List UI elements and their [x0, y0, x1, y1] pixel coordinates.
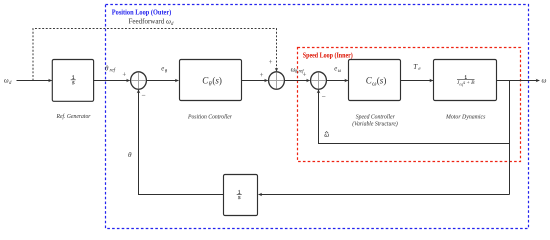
wire: input to Ref Generator — [17, 80, 52, 82]
svg-text:(s): (s) — [377, 75, 387, 85]
summing junction S3 (speed error) — [311, 72, 327, 89]
label: output w — [542, 76, 547, 84]
svg-text:+: + — [260, 72, 264, 79]
svg-text:+: + — [122, 71, 126, 78]
wire: S1 to Position Controller, label e_theta — [146, 80, 178, 82]
label: plus top at S2 — [269, 59, 273, 66]
label: e_w — [334, 65, 342, 73]
svg-text:ω: ω — [542, 76, 547, 84]
wire: position feedback to 1/s block — [259, 194, 510, 196]
block: Speed Controller C_w(s) — [349, 60, 401, 101]
wire: S3 to Speed Controller, label e_w — [326, 80, 348, 82]
wire: Speed Controller to Motor Dynamics, label T_e — [401, 80, 433, 82]
wire: S2 to S3, label w_ref — [284, 80, 309, 82]
label: theta_ref — [105, 64, 117, 73]
label: Ref. Generator — [56, 113, 91, 120]
input label wd — [4, 78, 12, 86]
label: plus at S3 — [303, 72, 307, 79]
svg-text:Position Controller: Position Controller — [187, 113, 232, 120]
wire: 1/s block to S1 bottom, label theta — [139, 90, 224, 195]
label: w-hat — [324, 131, 329, 139]
svg-text:−: − — [141, 91, 145, 100]
red dashed box: Speed Loop (Inner) — [298, 48, 521, 162]
block: feedback integrator 1/s — [224, 175, 258, 216]
blue dashed box: Position Loop (Outer) — [106, 5, 529, 229]
wire: Motor Dynamics to output w — [496, 80, 539, 82]
wire: output tap down — [509, 81, 511, 195]
label: T_e — [413, 63, 421, 72]
svg-text:θ: θ — [128, 151, 132, 159]
wire: Ref Generator to sum S1, label theta_ref — [94, 80, 130, 82]
svg-text:θ: θ — [209, 80, 212, 87]
svg-text:+: + — [269, 59, 273, 66]
label: w_ref — [291, 65, 305, 74]
label: plus left at S2 — [260, 72, 264, 79]
wire: Position Controller to sum S2 — [241, 80, 268, 82]
label: Position Loop (Outer) — [112, 8, 172, 16]
label: minus at S1 — [141, 91, 145, 100]
svg-text:(Variable Structure): (Variable Structure) — [352, 120, 398, 127]
svg-text:−: − — [322, 92, 326, 101]
svg-text:θ: θ — [105, 64, 109, 72]
block: Ref. Generator (1/s) — [52, 60, 93, 102]
label: Feedforward wd — [129, 17, 174, 27]
svg-text:+: + — [303, 72, 307, 79]
summing junction S2 (feedforward add) — [269, 72, 285, 89]
wire: speed feedback w-hat — [319, 90, 510, 144]
svg-text:Ref. Generator: Ref. Generator — [56, 113, 91, 120]
label: e_theta — [161, 66, 168, 75]
label: theta — [128, 151, 132, 159]
label: Speed Loop (Inner) — [303, 52, 354, 60]
label: Position Controller — [187, 113, 232, 120]
svg-text:Position Loop (Outer): Position Loop (Outer) — [112, 8, 172, 16]
block: Motor Dynamics 1/(Jeq s + B) — [434, 60, 497, 101]
label: plus at S1 — [122, 71, 126, 78]
label: Motor Dynamics — [445, 113, 486, 120]
svg-text:Speed Loop (Inner): Speed Loop (Inner) — [303, 52, 354, 60]
svg-text:(s): (s) — [212, 75, 222, 85]
svg-text:ω: ω — [338, 69, 342, 74]
feedforward dashed wire — [33, 29, 277, 81]
svg-text:Motor Dynamics: Motor Dynamics — [445, 113, 486, 120]
label: minus at S3 — [322, 92, 326, 101]
summing junction S1 — [131, 72, 147, 89]
block: Position Controller C_theta(s) — [180, 60, 242, 101]
label: Speed Controller (Variable Structure) — [352, 113, 398, 127]
